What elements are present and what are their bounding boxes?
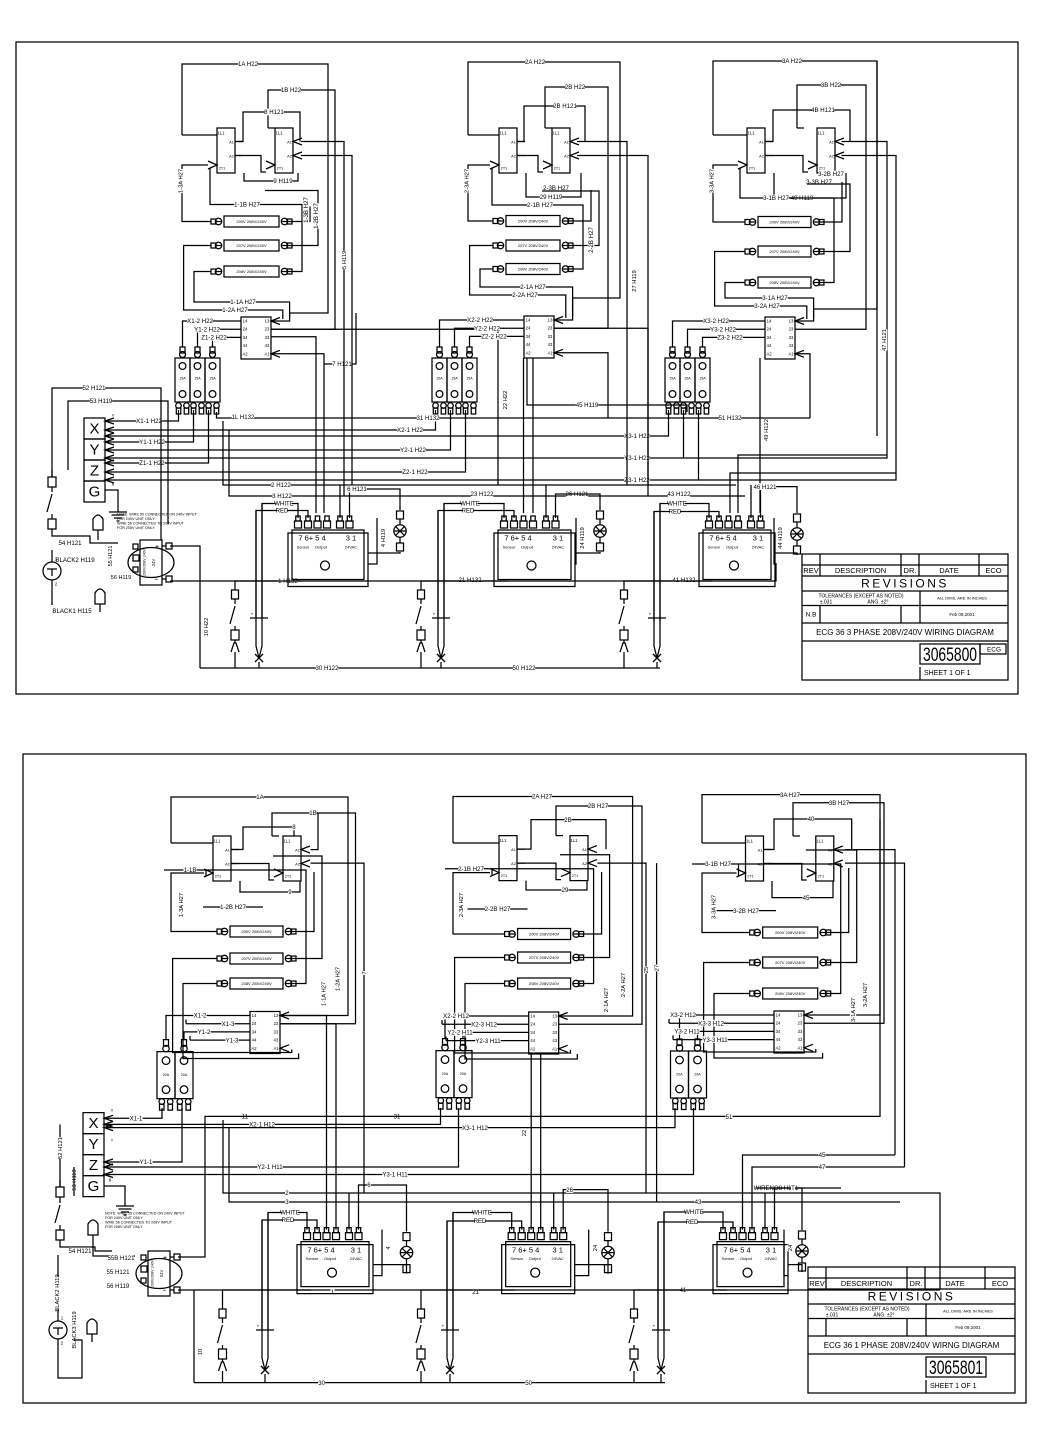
wire white U3 bbox=[660, 504, 709, 623]
wire lamp top U3 bbox=[761, 487, 798, 518]
svg-text:A1: A1 bbox=[829, 140, 834, 144]
svg-text:15A: 15A bbox=[451, 376, 458, 380]
svg-text:1-2B H27: 1-2B H27 bbox=[220, 904, 246, 911]
svg-text:54 H121: 54 H121 bbox=[68, 1248, 92, 1255]
transformer T1 sheet2 bbox=[136, 1251, 182, 1296]
voltage tap 11 bbox=[211, 216, 292, 227]
label 26 b bbox=[566, 1186, 574, 1194]
wire probe white U3 b bbox=[663, 1212, 665, 1330]
label 1A H22 bbox=[238, 61, 259, 69]
svg-text:15A: 15A bbox=[669, 376, 676, 380]
svg-text:208V 208V/240V: 208V 208V/240V bbox=[236, 269, 267, 274]
svg-text:1L1: 1L1 bbox=[571, 838, 579, 843]
label 3 H122 bbox=[272, 493, 292, 501]
label X2-2 H22 bbox=[467, 317, 493, 325]
svg-text:X1-3: X1-3 bbox=[222, 1021, 235, 1028]
svg-text:2T1: 2T1 bbox=[818, 874, 825, 878]
wire t drop U2-1 b bbox=[540, 1054, 542, 1230]
module U3 terminals bbox=[706, 516, 765, 528]
contactor coil 1L3b bbox=[274, 836, 310, 881]
svg-text:23: 23 bbox=[789, 327, 794, 332]
label BLACK2 H119 bbox=[55, 557, 95, 565]
wire lamp bottom U3 b bbox=[788, 1265, 802, 1272]
wire 3-2B stub b bbox=[716, 910, 776, 912]
svg-text:20A: 20A bbox=[676, 1072, 683, 1076]
label 47 b bbox=[818, 1164, 826, 1172]
svg-text:A2: A2 bbox=[582, 862, 587, 866]
wire 3-1B H27 bbox=[692, 864, 841, 994]
svg-text:DESCRIPTION: DESCRIPTION bbox=[835, 566, 886, 575]
wire loop 3B H27 bbox=[793, 803, 884, 1024]
svg-text:14: 14 bbox=[767, 319, 772, 324]
label 53 H119 bbox=[90, 398, 113, 406]
svg-text:44: 44 bbox=[526, 342, 531, 347]
svg-text:Y3-1 H22: Y3-1 H22 bbox=[624, 455, 650, 462]
svg-text:WHITE: WHITE bbox=[684, 1209, 704, 1216]
line contactor b2 bbox=[436, 1039, 472, 1110]
wire lamp bottom U2 bbox=[575, 552, 600, 553]
label RED U1 b bbox=[282, 1217, 295, 1225]
svg-text:2T1: 2T1 bbox=[501, 874, 508, 878]
wire 47 H121 drop bbox=[876, 61, 878, 436]
label 22 H22 bbox=[502, 391, 509, 410]
label 3-3B H27 bbox=[806, 179, 832, 187]
wire switch top U1 b bbox=[223, 1290, 311, 1309]
wire 9 loop b1 bbox=[240, 881, 300, 892]
svg-text:A1: A1 bbox=[287, 140, 292, 144]
wire 9 loop b3 bbox=[772, 881, 833, 898]
wire 9 H119 1 bbox=[244, 173, 298, 181]
voltage tap b33 bbox=[750, 988, 831, 999]
transformer T1 bbox=[128, 540, 174, 585]
label 1-2B H27 bbox=[313, 203, 321, 229]
label 7 vert b bbox=[361, 971, 368, 975]
contactor coil 2L1 bbox=[490, 128, 525, 173]
wire 2-2A H27 bbox=[470, 246, 566, 319]
svg-text:A1: A1 bbox=[758, 848, 763, 852]
wire switch top U3 b bbox=[634, 1290, 727, 1309]
label 46 H121 bbox=[753, 483, 777, 491]
wire Y1-1 bbox=[104, 1108, 182, 1165]
svg-text:Y2-1 H22: Y2-1 H22 bbox=[400, 447, 426, 454]
svg-text:44: 44 bbox=[530, 1038, 535, 1043]
label 43 H122 bbox=[667, 491, 691, 499]
wire A2 link 1 bbox=[235, 156, 266, 173]
wire lamp bottom U1 bbox=[368, 552, 400, 553]
bus 47 b bbox=[752, 1167, 905, 1230]
wire X1-2 bbox=[166, 1016, 250, 1040]
svg-text:X3-2 H22: X3-2 H22 bbox=[703, 318, 729, 325]
label 3B H27 bbox=[829, 799, 850, 807]
svg-text:X1-2 H22: X1-2 H22 bbox=[187, 318, 213, 325]
svg-text:1L1: 1L1 bbox=[500, 131, 508, 136]
svg-text:Feb 09,2001: Feb 09,2001 bbox=[949, 612, 975, 617]
label 52 H121 b bbox=[57, 1137, 64, 1159]
label 1 H132 bbox=[278, 578, 298, 586]
label 30 b bbox=[318, 1379, 326, 1387]
svg-text:2B H27: 2B H27 bbox=[588, 803, 609, 810]
wire 24v drop a U1 b bbox=[348, 1193, 350, 1230]
svg-text:15A: 15A bbox=[179, 376, 186, 380]
wire X2-1 H22 bbox=[105, 410, 436, 433]
svg-text:31 H132: 31 H132 bbox=[416, 415, 440, 422]
label 3-1B H27 bbox=[763, 195, 789, 203]
svg-text:45 H119: 45 H119 bbox=[576, 402, 599, 409]
svg-text:DATE: DATE bbox=[945, 1279, 964, 1288]
svg-text:2T1: 2T1 bbox=[277, 166, 284, 170]
electrode upper bbox=[93, 515, 103, 540]
label 4B H121 bbox=[811, 107, 835, 115]
svg-text:3A H27: 3A H27 bbox=[780, 792, 801, 799]
svg-text:207V 208V/240V: 207V 208V/240V bbox=[769, 249, 800, 254]
label X1-2 H22 bbox=[187, 318, 213, 326]
wire Y2-1 H11 bbox=[104, 1108, 459, 1170]
sheet 2 border frame bbox=[23, 754, 1026, 1403]
label RED U2 b bbox=[474, 1218, 487, 1226]
wire white U1 b bbox=[268, 1213, 307, 1331]
wire 1-3A b bbox=[171, 873, 217, 932]
svg-text:3065800: 3065800 bbox=[923, 645, 977, 666]
wire 3-1A b bbox=[714, 994, 823, 1059]
svg-text:3-2A H27: 3-2A H27 bbox=[863, 983, 869, 1007]
wire X1-1 bbox=[104, 1108, 162, 1121]
wire 10 b bbox=[193, 1290, 195, 1383]
label Y1-1 bbox=[139, 1159, 153, 1167]
flame probe U1 bbox=[250, 612, 268, 662]
svg-text:23: 23 bbox=[552, 1022, 557, 1027]
svg-text:56 H119: 56 H119 bbox=[111, 575, 131, 581]
label 25 vert b bbox=[643, 967, 650, 974]
wire 3-1B H27 bbox=[740, 168, 834, 283]
wire 2-1A b bbox=[465, 984, 577, 1060]
label X3-2 H12 bbox=[670, 1012, 696, 1020]
contactor coil 2L3 bbox=[543, 128, 579, 173]
label 3-2A H27 vert bbox=[862, 983, 869, 1007]
svg-text:3A H22: 3A H22 bbox=[782, 58, 803, 65]
svg-text:WIRE 56 CONNECTED TO 208V INPU: WIRE 56 CONNECTED TO 208V INPUT bbox=[105, 1221, 173, 1225]
label 50 H122 bbox=[512, 665, 536, 673]
label 2B H22 bbox=[565, 84, 586, 92]
svg-text:3-1B H27: 3-1B H27 bbox=[705, 861, 731, 868]
svg-text:3 1: 3 1 bbox=[351, 1245, 361, 1254]
wire 1 bus b bbox=[178, 1289, 940, 1291]
svg-text:50 H122: 50 H122 bbox=[512, 665, 536, 672]
svg-text:X2-2 H12: X2-2 H12 bbox=[443, 1013, 469, 1020]
svg-text:24: 24 bbox=[767, 327, 772, 332]
wire Z3-1 ext bbox=[699, 156, 897, 481]
wire 24v drop a U2 b bbox=[553, 1193, 555, 1230]
svg-text:7 6+ 5 4: 7 6+ 5 4 bbox=[709, 534, 736, 543]
wire A1 link b2 bbox=[517, 848, 531, 850]
label 43 b bbox=[694, 1199, 702, 1207]
voltage tap b21 bbox=[505, 929, 584, 940]
wire switch riser U1 b bbox=[222, 1371, 224, 1383]
bottom bus 30/50 H122 bbox=[200, 667, 660, 669]
svg-text:1L1: 1L1 bbox=[816, 839, 824, 844]
svg-text:1L1: 1L1 bbox=[553, 131, 561, 136]
label X2-2 H12 bbox=[443, 1013, 469, 1021]
wire t drop U1-0 b bbox=[280, 1016, 327, 1230]
ground wire bbox=[105, 490, 118, 505]
label X2-3 H12 bbox=[471, 1021, 497, 1029]
terminal board 3TB bbox=[765, 317, 804, 359]
wire Y3-1 H22 bbox=[105, 410, 684, 461]
svg-text:3-1A H27: 3-1A H27 bbox=[762, 295, 788, 302]
contactor coil 3L3b bbox=[807, 836, 843, 881]
svg-text:X: X bbox=[112, 412, 115, 417]
wire bus y1127.6 bbox=[104, 1108, 675, 1131]
wire probe riser U3 bbox=[656, 662, 658, 668]
svg-text:Z2-2 H22: Z2-2 H22 bbox=[481, 334, 507, 341]
wire probe riser U3 b bbox=[660, 1374, 662, 1383]
label 49 H122 vert bbox=[763, 419, 770, 441]
svg-text:+: + bbox=[155, 544, 159, 551]
wire lamp top U3 b bbox=[775, 1188, 803, 1230]
ground wire b bbox=[104, 1186, 125, 1199]
svg-text:2T1: 2T1 bbox=[285, 874, 292, 878]
wire probe red U1 bbox=[255, 511, 257, 619]
pilot lamp left sheet2 bbox=[49, 1255, 67, 1360]
label 3-2B H27 b bbox=[733, 907, 759, 915]
svg-text:3-1A H27: 3-1A H27 bbox=[851, 998, 857, 1022]
wire 7 stub 1 bbox=[324, 313, 356, 364]
svg-text:1B: 1B bbox=[309, 810, 316, 817]
svg-text:REVISIONS: REVISIONS bbox=[868, 1290, 956, 1304]
label 3-3A H27 vert bbox=[710, 895, 717, 919]
label 10 H22 bbox=[203, 618, 210, 637]
svg-text:1A: 1A bbox=[256, 794, 264, 801]
svg-text:+: + bbox=[653, 1324, 656, 1329]
wire X2-1 H12 bbox=[104, 1108, 441, 1127]
svg-text:Output: Output bbox=[529, 1256, 542, 1261]
label 4 vert b bbox=[385, 1246, 392, 1250]
svg-text:44: 44 bbox=[243, 343, 248, 348]
wire 3-2A b bbox=[704, 963, 816, 1053]
wire loop 40 bbox=[774, 819, 852, 850]
wire probe white U1 b bbox=[267, 1213, 269, 1331]
svg-text:2T1: 2T1 bbox=[819, 166, 826, 170]
wire A2 link 2 bbox=[517, 156, 543, 173]
wire switch riser U2 bbox=[420, 652, 422, 668]
bus 45 b bbox=[743, 1155, 896, 1230]
wire white U3 b bbox=[664, 1212, 723, 1330]
wire 54 H121 bbox=[52, 529, 118, 543]
wire 1-2B H27 bbox=[265, 191, 318, 246]
svg-text:DR.: DR. bbox=[910, 1279, 923, 1288]
svg-text:A1: A1 bbox=[295, 848, 300, 852]
wire switch riser U2 b bbox=[420, 1371, 422, 1383]
wire loop 8 bbox=[243, 827, 294, 850]
svg-text:208V 208V/240V: 208V 208V/240V bbox=[529, 981, 560, 986]
svg-text:24: 24 bbox=[526, 326, 531, 331]
svg-text:BLACK3 H119: BLACK3 H119 bbox=[72, 1311, 78, 1348]
wire lamp bottom U2 b bbox=[575, 1265, 608, 1274]
svg-text:±.031: ±.031 bbox=[820, 599, 833, 605]
wire 1L H132 bus bbox=[217, 412, 811, 418]
label 2-2B H27 bbox=[588, 227, 596, 253]
label 1 b bbox=[330, 1289, 334, 1297]
wire 53 H119 bbox=[68, 401, 168, 524]
label x pin b bbox=[111, 1107, 114, 1112]
svg-text:45: 45 bbox=[819, 1152, 826, 1159]
wire 27 H119 drop bbox=[577, 142, 627, 486]
svg-text:1L1: 1L1 bbox=[276, 131, 284, 136]
wire 3-1A H27 bbox=[725, 283, 814, 318]
label 2A H27 bbox=[532, 793, 553, 801]
electrode upper sheet2 bbox=[88, 1220, 135, 1256]
label 1-1A H27 bbox=[230, 299, 256, 307]
svg-text:Y2-3 H11: Y2-3 H11 bbox=[475, 1038, 501, 1045]
svg-text:15A: 15A bbox=[466, 376, 473, 380]
svg-text:Y2-1 H11: Y2-1 H11 bbox=[257, 1164, 283, 1171]
terminal board b1TB bbox=[250, 1012, 289, 1054]
svg-text:24: 24 bbox=[593, 1244, 599, 1251]
svg-text:8 H121: 8 H121 bbox=[264, 109, 284, 116]
voltage tap b31 bbox=[750, 927, 831, 938]
label 3 b bbox=[285, 1199, 289, 1207]
svg-text:23: 23 bbox=[798, 1021, 803, 1026]
svg-text:REV: REV bbox=[803, 566, 818, 575]
wire 2-3B b bbox=[580, 872, 602, 934]
svg-text:7 6+ 5 4: 7 6+ 5 4 bbox=[504, 534, 531, 543]
svg-text:24: 24 bbox=[776, 1021, 781, 1026]
wire 3-2B H27 bbox=[807, 184, 850, 252]
fuse block 3F bbox=[665, 347, 710, 414]
svg-text:BLACK2 H119: BLACK2 H119 bbox=[55, 1274, 61, 1311]
wire probe riser U2 bbox=[440, 662, 442, 668]
label WHITE U1 bbox=[274, 500, 294, 508]
label 40 bbox=[807, 816, 815, 824]
svg-text:24: 24 bbox=[252, 1021, 257, 1026]
svg-text:Y1-2 H22: Y1-2 H22 bbox=[194, 326, 220, 333]
svg-text:ALL DIMS. ARE IN INCHES: ALL DIMS. ARE IN INCHES bbox=[943, 1309, 993, 1314]
label 6 H121 bbox=[347, 486, 367, 494]
svg-text:44: 44 bbox=[767, 343, 772, 348]
svg-text:Y1-2: Y1-2 bbox=[198, 1029, 211, 1036]
svg-text:ECO: ECO bbox=[985, 566, 1001, 575]
svg-text:X1-2: X1-2 bbox=[194, 1013, 207, 1020]
wire drop 1-1 bbox=[271, 354, 324, 513]
note text b bbox=[105, 1211, 185, 1229]
svg-text:2-1A H27: 2-1A H27 bbox=[520, 284, 546, 291]
svg-text:3-1B H27: 3-1B H27 bbox=[763, 195, 789, 202]
svg-text:1-1B H27: 1-1B H27 bbox=[234, 202, 260, 209]
svg-text:A2: A2 bbox=[251, 1046, 257, 1051]
label WHITE U3 bbox=[667, 500, 687, 508]
label BLACK3 H119 b bbox=[71, 1311, 78, 1348]
wire 1-3A H27 bbox=[182, 165, 211, 222]
svg-text:SHEET 1 OF 1: SHEET 1 OF 1 bbox=[924, 670, 971, 677]
svg-text:200V 208V/240V: 200V 208V/240V bbox=[241, 929, 272, 934]
svg-text:RED: RED bbox=[282, 1217, 295, 1224]
wire A1 chev path S3 bbox=[738, 455, 887, 513]
label 2-1A H27 vert bbox=[603, 988, 610, 1012]
label 3-2B H27 bbox=[818, 171, 844, 179]
label RED U3 b bbox=[686, 1219, 699, 1227]
svg-text:54 H121: 54 H121 bbox=[58, 540, 82, 547]
terminal board 2TB bbox=[524, 316, 563, 358]
wire X1-2 H22 bbox=[183, 321, 242, 347]
label 1-2A H27 bbox=[222, 307, 248, 315]
svg-text:7: 7 bbox=[362, 971, 368, 974]
label y pin b bbox=[111, 1137, 114, 1142]
label 2-3A H27 vert bbox=[463, 169, 470, 193]
label X3-2 H22 bbox=[703, 318, 729, 326]
svg-text:2-1A H27: 2-1A H27 bbox=[604, 988, 610, 1012]
svg-text:1-2B H27: 1-2B H27 bbox=[313, 203, 320, 229]
label Y3-3 H11 bbox=[702, 1036, 728, 1044]
wire lamp top U2 bbox=[556, 494, 601, 518]
svg-text:20A: 20A bbox=[181, 1073, 188, 1077]
label BLACK2 H119 b bbox=[54, 1274, 61, 1311]
label 3-1B H27 bbox=[705, 861, 731, 869]
svg-text:1B H22: 1B H22 bbox=[281, 87, 302, 94]
wire 53 b bbox=[73, 1167, 75, 1196]
svg-text:1L1: 1L1 bbox=[284, 839, 292, 844]
wire drop 2-1 bbox=[532, 358, 534, 513]
svg-text:A2: A2 bbox=[829, 154, 834, 158]
svg-text:43: 43 bbox=[552, 1038, 557, 1043]
svg-text:A1: A1 bbox=[225, 848, 230, 852]
wire 9 loop b2 bbox=[526, 881, 587, 890]
wire 1-2B stub b bbox=[203, 906, 263, 908]
label WHITE U1 b bbox=[280, 1209, 300, 1217]
wire Z1-1 H22 bbox=[105, 410, 209, 466]
wire lamp top U1 bbox=[350, 489, 401, 518]
label 2 H122 bbox=[271, 482, 291, 490]
wire probe riser U1 bbox=[258, 662, 260, 668]
wire X2-2 H22 bbox=[440, 320, 525, 347]
svg-text:1-2A H27: 1-2A H27 bbox=[222, 307, 248, 314]
svg-text:34: 34 bbox=[767, 335, 772, 340]
svg-text:2B: 2B bbox=[564, 817, 571, 824]
ground symbol bbox=[109, 505, 127, 521]
wire Z3-2 H22 bbox=[703, 337, 766, 347]
svg-text:DESCRIPTION: DESCRIPTION bbox=[841, 1279, 892, 1288]
electrode lower sheet2 bbox=[87, 1319, 97, 1342]
wire lamp bottom U1 b bbox=[373, 1265, 407, 1274]
label 5 H119 bbox=[341, 251, 348, 269]
svg-text:2-2B H27: 2-2B H27 bbox=[485, 906, 511, 913]
label X3-3 H12 bbox=[698, 1020, 724, 1028]
label x pin bbox=[112, 412, 115, 417]
svg-text:47: 47 bbox=[819, 1164, 826, 1171]
svg-text:Z3-1 H22: Z3-1 H22 bbox=[624, 477, 650, 484]
module U1 terminals sheet2 bbox=[304, 1228, 363, 1240]
wire loop 2B bbox=[545, 87, 608, 328]
voltage tap 23 bbox=[493, 264, 573, 275]
svg-text:Y2-2 H22: Y2-2 H22 bbox=[474, 325, 500, 332]
svg-text:24: 24 bbox=[788, 1244, 794, 1251]
svg-text:7 6+ 5 4: 7 6+ 5 4 bbox=[723, 1245, 750, 1254]
wire 3-3A H27 bbox=[713, 165, 745, 222]
module U2 terminals bbox=[501, 516, 560, 528]
wire 24v drop a U3 bbox=[750, 485, 752, 518]
wire 24v drop a U2 bbox=[545, 485, 547, 518]
svg-text:-: - bbox=[163, 1285, 166, 1295]
svg-text:24VAC: 24VAC bbox=[552, 544, 564, 549]
label Y1-2 bbox=[197, 1029, 211, 1037]
wire 1-1B H27 bbox=[210, 168, 302, 272]
svg-text:Z: Z bbox=[89, 1157, 98, 1174]
wire no8 b bbox=[756, 1187, 841, 1189]
svg-text:200V 208V/240V: 200V 208V/240V bbox=[529, 931, 560, 936]
wire red U1 b bbox=[262, 1220, 317, 1330]
label 3A H22 bbox=[782, 58, 803, 66]
label 23 H122 bbox=[470, 491, 494, 499]
label 27 vert b bbox=[653, 965, 660, 972]
svg-text:A2: A2 bbox=[766, 351, 772, 356]
